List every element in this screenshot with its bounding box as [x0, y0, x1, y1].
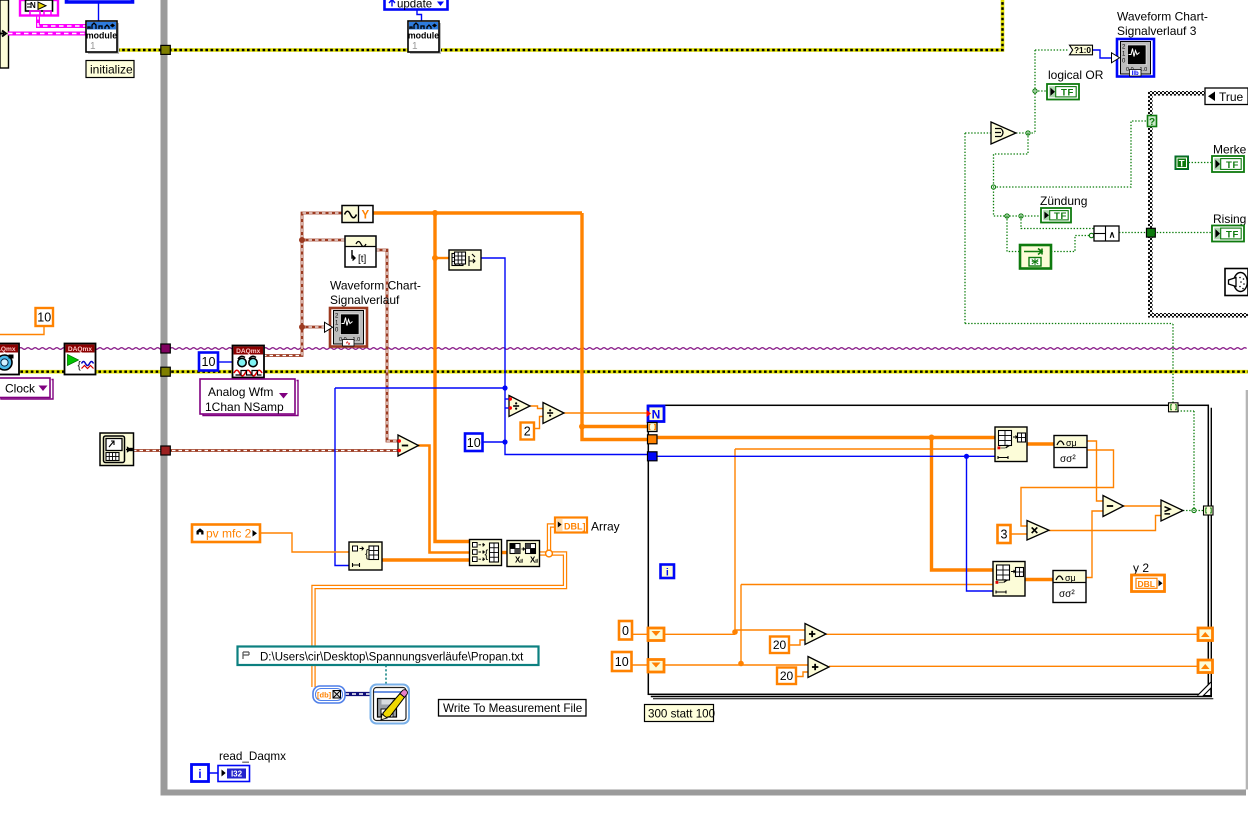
tunnel brown on while border — [161, 446, 171, 455]
wire purple DAQmx task — [19, 348, 1247, 350]
svg-text:D:\Users\cir\Desktop\Spannungs: D:\Users\cir\Desktop\Spannungsverläufe\P… — [260, 652, 524, 664]
wire blue matrix-size net — [335, 258, 648, 566]
wire orange const10 topleft — [0, 326, 44, 335]
while loop right border sliver — [1246, 390, 1248, 790]
module2 subVI — [408, 21, 441, 54]
shift register right 1 — [1198, 628, 1213, 641]
wire green to feedback node — [1007, 216, 1020, 252]
svg-text:Waveform Chart-: Waveform Chart- — [1117, 10, 1208, 24]
svg-text:?1:0: ?1:0 — [1074, 45, 1091, 55]
svg-text:Write To Measurement File: Write To Measurement File — [443, 702, 582, 715]
numeric constant 0 — [619, 621, 632, 640]
tunnel orange array — [648, 435, 658, 444]
svg-text:module: module — [86, 31, 117, 41]
waveform chart 3 indicator — [1112, 39, 1155, 77]
wire teal file path — [385, 665, 387, 686]
wire brown settings to subtract — [133, 449, 398, 452]
DAQmx start icon — [65, 344, 96, 375]
tunnel green array out top — [1169, 403, 1179, 412]
label read_Daqmx — [219, 750, 286, 763]
svg-text:[t]: [t] — [358, 254, 367, 265]
build array node — [470, 540, 502, 566]
while loop bottom border — [161, 790, 1247, 796]
add node 2 — [808, 657, 829, 678]
wire orange divide2 to N — [564, 412, 648, 414]
svg-text:DBL: DBL — [1138, 579, 1155, 589]
clipped stacked-sequence bar — [0, 0, 9, 68]
wire orange const3 — [1010, 533, 1027, 535]
case selector terminal ? — [1148, 116, 1157, 128]
wire green feedback to AND — [1051, 233, 1094, 251]
wire orange index10 net — [658, 585, 993, 667]
shift register left 0 — [648, 628, 664, 641]
wire orange subset1 to stats1 — [1027, 442, 1054, 445]
case structure border — [1148, 91, 1248, 318]
wire orange const0 — [632, 633, 649, 635]
DAQmx create clock icon — [0, 344, 19, 375]
wire blue const10 to divide — [482, 441, 505, 443]
true constant T — [1175, 156, 1189, 170]
numeric constant 10 orange topleft — [36, 308, 54, 326]
for loop frame — [648, 405, 1213, 699]
subVI icon top-left — [20, 0, 58, 16]
statistics node 1 — [1054, 436, 1087, 468]
svg-text:300 statt 100: 300 statt 100 — [648, 708, 715, 721]
clipped blue structure edge — [67, 0, 133, 2]
svg-text:logical OR: logical OR — [1048, 68, 1104, 82]
wire orange subtract2 out — [1124, 505, 1162, 507]
wire orange stats1 sigma — [1021, 450, 1114, 526]
I32 indicator read_Daqmx — [218, 766, 250, 782]
svg-text:y 2: y 2 — [1133, 561, 1149, 575]
svg-text:Clock: Clock — [5, 382, 36, 396]
wire orange const10b — [632, 664, 649, 666]
get waveform Y node — [342, 206, 373, 223]
svg-text:10: 10 — [467, 436, 481, 450]
svg-text:Y: Y — [362, 210, 370, 222]
wire orange multiply out — [1049, 516, 1161, 531]
wire orange 20b to add2 — [795, 672, 808, 677]
wire magenta from subVI down to module1 — [38, 15, 86, 26]
greater-equal node — [1161, 500, 1183, 521]
shift register left 10 — [648, 660, 664, 673]
svg-text:3: 3 — [1001, 528, 1008, 542]
svg-text:TF: TF — [1054, 211, 1067, 222]
wire blue const10 to DAQmx read — [218, 361, 232, 363]
svg-text:Rising: Rising — [1213, 212, 1246, 226]
svg-text:1Chan NSamp: 1Chan NSamp — [205, 400, 284, 414]
label Merke — [1213, 143, 1247, 157]
get waveform t node — [345, 236, 376, 267]
wire green AND out — [1119, 232, 1146, 234]
svg-text:read_Daqmx: read_Daqmx — [219, 750, 286, 763]
svg-text:20: 20 — [773, 638, 787, 652]
svg-text:Array: Array — [591, 520, 620, 534]
svg-text:TF: TF — [1226, 160, 1239, 171]
while iteration terminal i — [192, 765, 209, 782]
wire brown get-t to subtract — [376, 250, 398, 441]
beep VI icon — [1225, 269, 1248, 296]
module1 subVI — [86, 21, 119, 54]
svg-text:Xᵢₗ: Xᵢₗ — [530, 556, 538, 565]
wire orange add1 out — [826, 633, 1199, 635]
svg-text:update: update — [397, 0, 432, 11]
wire orange 20a to add1 — [789, 640, 805, 645]
svg-text:10: 10 — [615, 655, 629, 669]
statistics node 2 — [1053, 571, 1086, 603]
svg-text:Signalverlauf: Signalverlauf — [330, 293, 400, 307]
wire yellow error lower — [10, 370, 1248, 374]
wire blue select to chart3 — [1093, 50, 1112, 58]
label write to measurement file — [439, 700, 587, 717]
numeric constant 20 a — [770, 637, 789, 654]
waveform chart indicator — [325, 308, 368, 347]
numeric constant 20 b — [777, 668, 796, 685]
wire green gte out — [1178, 411, 1204, 513]
wire blue i to I32 — [209, 772, 218, 774]
label Array — [591, 520, 620, 534]
or gate — [991, 122, 1016, 144]
svg-text:N: N — [652, 407, 661, 421]
wire orange stats1 mean — [1087, 441, 1103, 501]
label 300 statt 100 — [645, 705, 716, 722]
svg-text:20: 20 — [780, 669, 794, 683]
svg-text:Xᵢₗ: Xᵢₗ — [515, 556, 523, 565]
wire orange 2D to Array indicator — [314, 526, 566, 688]
wire orange buildarray out — [502, 551, 508, 554]
matrix size node — [449, 250, 481, 270]
and node — [1094, 226, 1119, 241]
transpose node — [507, 541, 540, 567]
svg-text:DAQmx: DAQmx — [68, 346, 93, 353]
multiply node — [1027, 521, 1049, 541]
wire blue size into subsets — [657, 454, 995, 591]
svg-text:DAQmx: DAQmx — [0, 346, 16, 353]
subtract node 2 — [1103, 496, 1124, 517]
svg-text:∿: ∿ — [346, 341, 351, 347]
array DBL indicator — [555, 518, 587, 533]
tunnel indexing array in — [648, 423, 658, 432]
svg-text:T: T — [1179, 159, 1185, 170]
wire orange subset2 to stats2 — [1026, 578, 1054, 581]
convert to dynamic data node — [313, 686, 345, 703]
svg-text:initialize: initialize — [90, 63, 133, 77]
select node ?1:0 — [1070, 45, 1093, 55]
numeric constant 3 — [998, 525, 1011, 543]
DAQmx read icon — [233, 346, 265, 378]
svg-text:σμ: σμ — [1065, 573, 1076, 583]
svg-text:N: N — [30, 1, 36, 10]
wire orange subtract out — [418, 446, 470, 553]
N count terminal — [647, 406, 665, 422]
write to measurement file icon — [371, 685, 410, 724]
add node 1 — [805, 624, 826, 645]
label Rising — [1213, 212, 1246, 226]
wire orange add2 out — [829, 665, 1199, 667]
label waveform chart signalverlauf — [330, 279, 421, 308]
svg-text:Waveform Chart-: Waveform Chart- — [330, 279, 421, 293]
wire orange branch to for-loop tunnels — [579, 213, 648, 440]
subtract node — [398, 435, 419, 456]
svg-text:Zündung: Zündung — [1040, 194, 1087, 208]
local variable pv mfc 2 — [192, 525, 260, 543]
svg-text:[db]: [db] — [317, 691, 332, 700]
array subset node 1 — [995, 427, 1027, 462]
DBL indicator y2 — [1132, 575, 1165, 592]
wire green to case selector — [991, 121, 1148, 218]
numeric constant 2 — [521, 423, 535, 440]
tunnel purple on while border — [161, 344, 171, 353]
wire orange divide1 out — [530, 406, 543, 409]
svg-text:i: i — [198, 769, 201, 781]
label initialize — [86, 61, 134, 78]
while loop left border — [161, 0, 168, 796]
wire green loop feedback — [965, 133, 1173, 403]
feedback node — [1020, 245, 1051, 269]
wire green to AND top — [1021, 216, 1094, 229]
svg-text:0: 0 — [622, 624, 629, 638]
boolean indicator logical OR — [1047, 84, 1079, 100]
wire orange const2 to divide2 — [534, 417, 543, 429]
wire green to Rising — [1154, 232, 1212, 234]
array subset node 2 — [993, 562, 1025, 597]
numeric constant 10 blue left — [199, 353, 218, 371]
wire orange array into subset1 — [657, 435, 995, 571]
numeric constant 10 blue 2 — [465, 434, 483, 452]
ring constant Analog Wfm — [200, 379, 298, 416]
wire navy dynamic data — [345, 692, 371, 696]
wire yellow error main — [117, 0, 1003, 50]
svg-text:Signalverlauf 3: Signalverlauf 3 — [1117, 24, 1197, 38]
svg-text:DAQmx: DAQmx — [236, 348, 261, 355]
svg-text:σσ²: σσ² — [1059, 589, 1075, 600]
divide node 2 — [543, 403, 564, 424]
svg-text:10: 10 — [37, 311, 51, 325]
wire green T to Merke — [1189, 162, 1213, 164]
wire green OR net — [1016, 50, 1069, 135]
reshape array node — [349, 542, 382, 570]
shift register right 2 — [1198, 660, 1213, 673]
boolean indicator Rising — [1212, 226, 1244, 242]
svg-text:{: { — [365, 548, 369, 560]
iteration terminal i — [661, 565, 675, 579]
wire orange 2D transpose out — [540, 551, 547, 555]
wire orange GetY array — [373, 210, 582, 542]
svg-text:i: i — [666, 566, 669, 578]
label logical OR — [1048, 68, 1104, 82]
svg-text:2: 2 — [524, 425, 531, 439]
svg-text:module: module — [408, 31, 439, 41]
divide node 1 — [509, 396, 530, 417]
tunnel green case — [1147, 228, 1156, 237]
wire orange reshape out — [382, 558, 470, 561]
svg-text:True: True — [1219, 90, 1244, 104]
tunnel olive on while border — [161, 367, 171, 376]
update enum constant — [385, 0, 448, 11]
settings subVI icon — [100, 433, 134, 466]
svg-text:σσ²: σσ² — [1060, 454, 1076, 465]
svg-text:Merke: Merke — [1213, 143, 1247, 157]
svg-text:pv mfc 2: pv mfc 2 — [206, 527, 252, 541]
svg-text:{: { — [485, 549, 489, 561]
svg-text:1: 1 — [90, 41, 96, 52]
wire orange index0 net — [658, 449, 995, 635]
svg-text:10: 10 — [202, 355, 216, 369]
svg-text:σμ: σμ — [1066, 438, 1077, 448]
tunnel blue size — [648, 452, 658, 461]
wire orange pv-mfc — [260, 533, 349, 552]
boolean control Zuendung — [1041, 208, 1071, 223]
label y 2 — [1133, 561, 1149, 575]
numeric constant 10 loop — [612, 652, 632, 671]
label Zuendung — [1040, 194, 1087, 208]
tunnel green array out right — [1204, 506, 1214, 515]
wire magenta from left arrow to module1 — [8, 32, 86, 36]
svg-text:Analog Wfm: Analog Wfm — [208, 385, 273, 399]
svg-text:Ilb: Ilb — [1132, 71, 1139, 77]
svg-text:I32: I32 — [231, 770, 243, 779]
ring constant Clock — [0, 378, 53, 399]
wire blue module1 top — [98, 3, 100, 21]
label waveform chart 3 — [1117, 10, 1208, 39]
file path constant — [238, 647, 539, 666]
wire brown DAQmx read net — [263, 213, 345, 356]
svg-text:1: 1 — [412, 41, 418, 52]
boolean indicator Merke — [1212, 156, 1244, 172]
svg-text:?: ? — [1149, 117, 1155, 128]
svg-text:∧: ∧ — [1109, 230, 1116, 240]
case selector label True — [1205, 88, 1248, 105]
svg-text:TF: TF — [1226, 229, 1239, 240]
wire blue update to module2 — [417, 9, 422, 21]
svg-text:TF: TF — [1061, 88, 1074, 99]
svg-text:DBL]: DBL] — [564, 522, 586, 532]
wire orange stats2 mean — [1086, 511, 1103, 578]
tunnel yellow on while border — [161, 45, 171, 54]
